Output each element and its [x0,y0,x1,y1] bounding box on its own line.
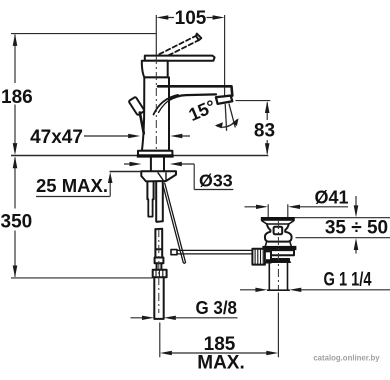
svg-text:47x47: 47x47 [30,127,83,148]
svg-text:186: 186 [1,87,33,108]
svg-text:catalog.onliner.by: catalog.onliner.by [313,354,380,363]
svg-text:G 3/8: G 3/8 [196,297,238,318]
svg-text:MAX.: MAX. [197,353,245,374]
svg-text:Ø33: Ø33 [199,171,233,191]
svg-text:Ø41: Ø41 [315,188,349,208]
svg-text:105: 105 [175,8,207,29]
svg-text:83: 83 [254,121,275,142]
svg-text:G 1 1/4: G 1 1/4 [324,270,372,291]
svg-text:25 MAX.: 25 MAX. [36,175,108,196]
svg-text:35 ÷ 50: 35 ÷ 50 [325,218,388,239]
svg-text:350: 350 [1,212,33,233]
